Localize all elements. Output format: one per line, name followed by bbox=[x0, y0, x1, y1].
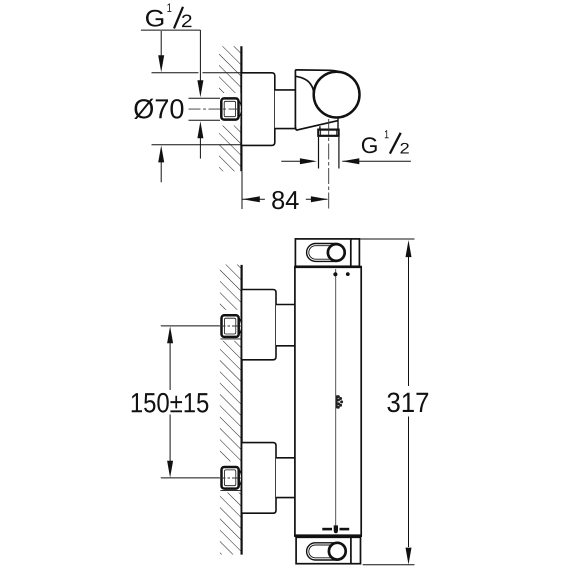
bottom view: bottom cap pill handle bbox=[307, 543, 346, 560]
top view: wall hatching bbox=[219, 46, 241, 171]
dim G1/2 top: lower arrow bbox=[199, 138, 201, 159]
bottom view: lower nut halo bbox=[219, 462, 241, 493]
bottom view: top cap bottom bold line bbox=[294, 266, 362, 268]
bottom view: bar bottom bold line bbox=[294, 534, 362, 537]
bottom view: upper nut bulge bbox=[239, 318, 242, 335]
dim G1/2 top: text bbox=[146, 10, 163, 27]
bottom view: upper union stem bbox=[276, 305, 295, 346]
dim O70: arrows bbox=[160, 31, 162, 57]
bottom view: lower connection centerline bbox=[161, 477, 220, 479]
bottom view: lower nut bulge bbox=[239, 469, 242, 486]
dim G1/2 outlet: text bbox=[362, 137, 377, 153]
dim O70: text bbox=[134, 99, 183, 119]
top view: outlet nut G1/2 bbox=[318, 130, 338, 136]
top view: wall extension line for 84 dim bbox=[241, 171, 243, 209]
bottom view: lower union escutcheon bbox=[242, 443, 276, 514]
top view: wall connection nut bbox=[221, 98, 238, 119]
dim 84: dimension line and arrows bbox=[242, 198, 265, 200]
top view: nut bulge to wall bbox=[239, 100, 242, 117]
top view: fillet curve body to ball bbox=[296, 76, 314, 93]
bottom view: top cap bbox=[295, 239, 359, 266]
dim O70: extension lines bbox=[152, 72, 199, 74]
bottom view: emblem rosette bbox=[336, 395, 343, 409]
bottom view: lower nut lower line bbox=[220, 490, 241, 492]
top view: pipe centerline through nut bbox=[189, 108, 243, 110]
top view: outlet shank bbox=[318, 137, 320, 169]
bottom view: top cap knob circle bbox=[328, 244, 345, 261]
top view: wall connection nut halo bbox=[218, 93, 240, 126]
bottom view: screw dot right bbox=[346, 272, 350, 276]
dim 84: text bbox=[272, 191, 298, 209]
dim 317: extension lines bbox=[359, 238, 414, 240]
dim 150+-15: text bbox=[132, 393, 209, 413]
bottom view: lower nut bbox=[222, 467, 239, 489]
bottom view: mixer bar body bbox=[295, 267, 361, 537]
top view: outlet neck bbox=[319, 126, 321, 129]
bottom view: bar centerline bbox=[335, 269, 337, 526]
bottom view: wall line bbox=[241, 265, 243, 555]
bottom view: top cap divider bbox=[350, 239, 352, 266]
dim 317: text bbox=[387, 392, 428, 412]
top view: holder ball bbox=[314, 72, 360, 118]
bottom view: upper nut bbox=[222, 315, 239, 337]
dim G1/2 top: leader line bbox=[141, 29, 201, 31]
top view: wall line bbox=[240, 46, 242, 171]
top view: stem between escutcheon and body bbox=[275, 90, 296, 129]
top view: body cone outline bbox=[295, 70, 340, 129]
bottom view: wall hatching bbox=[220, 265, 242, 555]
top view: outlet centerline bbox=[328, 119, 330, 209]
bottom view: temperature stop mark bbox=[322, 528, 332, 531]
bottom view: bottom cap divider bbox=[350, 537, 352, 563]
bottom view: upper nut halo bbox=[219, 310, 241, 341]
bottom view: bottom cap bbox=[296, 537, 360, 563]
top view: escutcheon (O70 rosette, side) bbox=[241, 73, 274, 146]
bottom view: upper connection centerline bbox=[161, 325, 220, 327]
top view: body cone fill bbox=[295, 70, 338, 130]
top view: nut outline extension lines bbox=[189, 97, 221, 99]
dim G1/2 outlet: arrows bbox=[281, 160, 301, 162]
bottom view: upper nut lower line bbox=[220, 338, 241, 340]
bottom view: screw dot left bbox=[333, 272, 337, 276]
bottom view: lower union stem bbox=[276, 458, 295, 498]
bottom view: bottom cap knob circle bbox=[329, 543, 346, 560]
dim 317: dimension line bbox=[408, 257, 410, 386]
bottom view: top cap pill handle bbox=[307, 244, 345, 262]
bottom view: upper union escutcheon bbox=[242, 290, 276, 360]
dim 150+-15: dimension line bbox=[169, 343, 171, 390]
